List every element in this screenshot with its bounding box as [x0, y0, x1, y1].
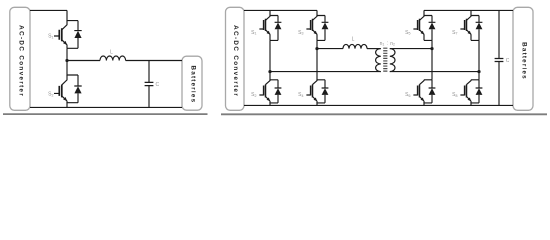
- diode across S7: [476, 16, 483, 41]
- wire: bridge2 leg D trunk, branches and merges: [471, 10, 479, 105]
- svg-text:AC-DC Converter: AC-DC Converter: [18, 25, 25, 97]
- transistor S4 (IGBT): [306, 80, 317, 103]
- node: phase A junction: [268, 70, 271, 73]
- svg-text:Batteries: Batteries: [190, 66, 197, 104]
- transistor S6 (IGBT): [413, 80, 424, 103]
- svg-text:Batteries: Batteries: [521, 42, 528, 80]
- diode across S1: [74, 21, 81, 49]
- capacitor C plates: [495, 59, 504, 62]
- transformer secondary winding: [390, 49, 395, 72]
- node: phase D junction: [477, 70, 480, 73]
- transformer core: [383, 48, 387, 73]
- capacitor C (left circuit) top lead: [148, 61, 150, 83]
- svg-text:S2: S2: [251, 92, 256, 98]
- capacitor C bottom lead: [148, 86, 150, 108]
- svg-text:S1: S1: [251, 30, 256, 36]
- separator underline (right figure): [221, 113, 547, 115]
- svg-text::: :: [387, 41, 388, 47]
- capacitor C bottom lead: [498, 62, 500, 106]
- svg-text:S1: S1: [48, 34, 53, 40]
- diode across S4: [322, 80, 329, 103]
- diode across S6: [429, 80, 436, 103]
- wire: secondary bottom to bridge2 leg D: [390, 71, 479, 73]
- diode across S5: [429, 16, 436, 41]
- wire: phase B to series inductor: [317, 48, 343, 50]
- node: phase mid-point junction: [65, 59, 68, 62]
- node: phase B junction: [315, 47, 318, 50]
- transistor S1 (IGBT): [259, 16, 270, 41]
- capacitor C plates: [145, 82, 154, 85]
- svg-text:S7: S7: [452, 30, 457, 36]
- node: phase C junction: [430, 47, 433, 50]
- wire: inductor to transformer primary top: [367, 48, 381, 50]
- svg-text:AC-DC Converter: AC-DC Converter: [232, 25, 239, 97]
- wire: bottom rail (left circuit): [30, 106, 182, 108]
- svg-text:S6: S6: [405, 92, 410, 98]
- svg-text:S8: S8: [452, 92, 457, 98]
- svg-text:S3: S3: [298, 30, 303, 36]
- svg-text:n1: n1: [380, 41, 385, 47]
- svg-text:n2: n2: [390, 41, 395, 47]
- wire: top rail from converter to half-bridge leg: [30, 9, 67, 11]
- svg-text:L: L: [110, 49, 113, 55]
- svg-text:S4: S4: [298, 92, 303, 98]
- block: AC-DC Converter (left circuit): [10, 7, 30, 110]
- transformer primary winding: [376, 49, 381, 72]
- diode across S8: [476, 80, 483, 103]
- transistor S1 (IGBT, high side): [54, 21, 67, 49]
- svg-text:S5: S5: [405, 30, 410, 36]
- transistor S3 (IGBT): [306, 16, 317, 41]
- wire: bridge2 leg C trunk, branches and merges: [424, 10, 432, 105]
- separator underline (left figure): [3, 113, 208, 115]
- diode across S2: [74, 75, 81, 103]
- wire: top rail bridge 2: [424, 9, 513, 11]
- block: Batteries (left circuit): [182, 56, 202, 110]
- wire: bottom rail (right circuit): [244, 104, 513, 106]
- transistor S8 (IGBT): [460, 80, 471, 103]
- diode across S1: [275, 16, 282, 41]
- inductor L (left circuit): [100, 56, 126, 61]
- transistor S2 (IGBT, low side): [54, 75, 67, 103]
- diode across S3: [322, 16, 329, 41]
- svg-text:L: L: [352, 36, 355, 42]
- block: Batteries (right circuit): [513, 7, 533, 110]
- wire: bridge1 leg A trunk, branches and merges: [270, 10, 278, 105]
- inductor L (right circuit): [343, 44, 367, 48]
- transistor S7 (IGBT): [460, 16, 471, 41]
- wire: mid node to inductor: [67, 60, 100, 62]
- diode across S2: [275, 80, 282, 103]
- transistor S5 (IGBT): [413, 16, 424, 41]
- capacitor C (right circuit) top lead: [498, 10, 500, 58]
- svg-text:S2: S2: [48, 91, 53, 97]
- wire: half-bridge leg trunk, branches and merges: [67, 10, 78, 107]
- wire: bridge1 leg B trunk, branches and merges: [317, 10, 325, 105]
- wire: secondary top to bridge2 leg C: [390, 48, 432, 50]
- block: AC-DC Converter (right circuit): [226, 7, 245, 110]
- wire: phase A to transformer primary bottom: [270, 71, 381, 73]
- svg-text:C: C: [506, 58, 510, 64]
- wire: inductor to Batteries block: [126, 60, 182, 62]
- svg-text:C: C: [155, 82, 159, 88]
- transistor S2 (IGBT): [259, 80, 270, 103]
- wire: top rail bridge 1: [244, 9, 317, 11]
